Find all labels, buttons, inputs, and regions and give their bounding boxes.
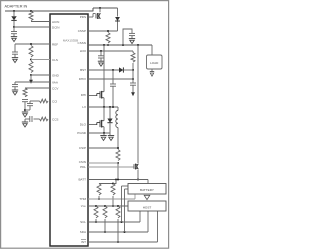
- wire INT into host box: [157, 211, 159, 242]
- wire D1 cathode to DCIN node: [13, 21, 15, 27]
- wire C-CSSN to ground: [131, 36, 133, 39]
- ground below CCV comp: [22, 111, 28, 113]
- svg-text:VAA: VAA: [52, 80, 59, 84]
- node DHIV supply: [132, 69, 134, 71]
- svg-text:CCI: CCI: [52, 99, 57, 103]
- wire SCL into host box: [139, 211, 141, 222]
- node LX / C-BST: [112, 106, 114, 108]
- connector arrow battery-host: [144, 195, 150, 199]
- wire DLO pin to Q2 gate: [88, 124, 97, 126]
- ground below D2: [108, 135, 114, 137]
- IC U1 charger box: [50, 14, 88, 246]
- transistor Q1 high-side NFET: [96, 94, 98, 97]
- wire CSSN rail to P2: [137, 45, 139, 163]
- wire jog to C-CSSN: [123, 29, 132, 45]
- node VDD / R-SDA: [104, 205, 106, 207]
- wire C1 to ground: [13, 34, 15, 37]
- wire BATT pin line: [88, 179, 148, 181]
- svg-text:DLO: DLO: [80, 123, 87, 127]
- wire VAA pin line: [15, 81, 50, 83]
- node SDA / battery branch: [123, 231, 125, 233]
- wire to ground arrow: [30, 75, 32, 77]
- node LX / Q1: [103, 106, 105, 108]
- resistor RS2 charge sense: [116, 150, 120, 161]
- resistor R-SCL pullup: [94, 206, 98, 218]
- svg-text:CSIP: CSIP: [79, 146, 86, 150]
- wire CSSN system rail: [88, 44, 152, 46]
- wire to C-CCI: [29, 101, 31, 104]
- node BATT / pullup pair: [115, 178, 117, 180]
- node VDD / R-SCL: [95, 205, 97, 207]
- node SDA pullup: [104, 231, 106, 233]
- wire D1 anode: [13, 11, 15, 16]
- wire THM pin line: [88, 198, 135, 200]
- wire rail step up: [92, 8, 94, 11]
- capacitor C-CSSN bypass: [129, 32, 135, 34]
- svg-text:DCIN: DCIN: [52, 25, 59, 29]
- inductor L1: [116, 111, 118, 128]
- block HOST box: [128, 201, 166, 211]
- wire comp to ground node: [24, 102, 26, 112]
- wire C-BST lead: [112, 70, 114, 84]
- wire BST pin line: [88, 69, 119, 71]
- capacitor C-DHIV bypass: [130, 82, 136, 84]
- wire adapter input rail: [5, 10, 93, 12]
- capacitor C-REF bypass: [12, 51, 18, 53]
- node RS2 / CSIN: [117, 162, 119, 164]
- resistor R-ACIN divider: [29, 11, 33, 21]
- resistor R-VDD feed: [111, 184, 115, 195]
- capacitor C1 DCIN bypass: [11, 31, 17, 33]
- wire LDO to R-DHIV: [132, 51, 134, 53]
- svg-text:MAX1535B: MAX1535B: [63, 39, 78, 43]
- resistor RS1 input sense: [106, 33, 110, 44]
- node adapter/R-ACIN junction: [30, 10, 32, 12]
- wire SDA into host box: [147, 211, 149, 232]
- wire R-DHIV to node: [132, 63, 134, 70]
- wire D2 cathode lead: [109, 107, 111, 119]
- wire INT pin line: [88, 241, 158, 243]
- wire SCL pin line: [88, 221, 140, 223]
- ground below C-VAA: [12, 89, 18, 91]
- svg-text:CCS: CCS: [52, 117, 58, 121]
- wire Q2 drain to LX: [103, 107, 105, 121]
- wire comp ground tie: [25, 109, 30, 111]
- node SCL pullup: [95, 221, 97, 223]
- diode D2 freewheel schottky: [107, 119, 112, 123]
- transistor P1 PDS p-channel FET: [95, 14, 97, 19]
- wire SCL into battery box: [122, 185, 129, 187]
- svg-text:PGND: PGND: [77, 131, 87, 135]
- capacitor C-LDO bypass: [98, 55, 104, 57]
- wire Q2 source to PGND: [103, 127, 105, 133]
- transistor P2 PDL p-channel FET: [133, 164, 135, 169]
- wire D-BST to DHIV node: [123, 69, 133, 71]
- svg-text:INT: INT: [81, 240, 86, 244]
- diode D1 input: [11, 16, 16, 20]
- wire rail to D3: [117, 8, 119, 17]
- wire VDD pin line: [88, 205, 128, 207]
- capacitor C-CCI comp: [27, 103, 33, 105]
- node rail / Q1 drain: [103, 44, 105, 46]
- resistor R-THM pullup: [97, 184, 101, 195]
- resistor R-CLS upper: [29, 46, 33, 57]
- svg-text:CSSP: CSSP: [78, 29, 86, 33]
- capacitor C-BST boost: [110, 83, 116, 85]
- node P2 / BATT: [137, 178, 139, 180]
- wire D2 to PGND: [109, 123, 111, 133]
- node REF divider top: [30, 43, 32, 45]
- ground below C1: [11, 36, 17, 38]
- wire PGND pin line: [88, 132, 110, 134]
- wire PDL pin line: [88, 166, 134, 168]
- wire LX pin line: [88, 106, 118, 108]
- wire CSSP pin line: [88, 30, 118, 32]
- wire pullup feed: [99, 180, 116, 184]
- resistor R-CCS comp: [40, 117, 49, 121]
- wire R-SCL to SCL: [95, 219, 97, 222]
- wire R-SDA to SDA: [104, 219, 106, 232]
- ground below C-LDO: [98, 60, 104, 62]
- svg-text:CSSN: CSSN: [78, 41, 86, 45]
- ground below C-REF: [12, 57, 18, 59]
- svg-text:LDO: LDO: [80, 49, 87, 53]
- node DHIV / bypass: [132, 78, 134, 80]
- node adapter/D1 junction: [13, 10, 15, 12]
- diode D3 to CSSP: [115, 17, 120, 21]
- block BATTERY box: [128, 184, 166, 195]
- resistor R-CLS lower: [29, 61, 33, 72]
- node INT pullup: [117, 241, 119, 243]
- node CSIP / RS2: [117, 147, 119, 149]
- wire rail to LOAD box: [151, 45, 153, 55]
- wire C-VAA to ground: [14, 87, 16, 90]
- node VDD feed: [112, 205, 114, 207]
- wire P2 to BATT line: [137, 170, 139, 180]
- node RS1 / CSSN rail: [107, 44, 109, 46]
- wire DHIV column: [132, 70, 134, 83]
- wire LDO pin line: [88, 50, 133, 52]
- node rail / C-jog: [122, 44, 124, 46]
- wire rail to P1: [99, 8, 101, 12]
- page border frame: [1, 1, 169, 249]
- ground below C-CSSN: [129, 38, 135, 40]
- node rail / P2 branch: [137, 44, 139, 46]
- block LOAD box: [147, 55, 163, 69]
- wire CSIN pin line: [88, 162, 118, 164]
- wire LOAD to ground: [151, 69, 153, 72]
- wire R-VDD to VDD line: [112, 196, 114, 206]
- wire to ACIN pin: [31, 21, 50, 23]
- capacitor C-CCV comp: [22, 99, 28, 101]
- node LDO cap: [100, 50, 102, 52]
- svg-text:ACIN: ACIN: [52, 20, 59, 24]
- wire SCL to battery: [121, 186, 123, 222]
- svg-text:ADAPTER IN: ADAPTER IN: [5, 5, 28, 9]
- wire C-BST to LX: [112, 86, 114, 107]
- svg-text:SDA: SDA: [80, 230, 87, 234]
- wire C-LDO to ground: [100, 58, 102, 61]
- svg-text:DHI: DHI: [81, 93, 86, 97]
- wire divider bottom to GND pin: [31, 74, 50, 76]
- wire C-CCS to ground: [25, 118, 30, 120]
- ground below CCS comp: [22, 121, 28, 123]
- node comp ground: [24, 109, 26, 111]
- svg-text:BATT: BATT: [78, 178, 86, 182]
- svg-text:HOST: HOST: [143, 206, 152, 210]
- wire VAA cap lead: [14, 82, 16, 85]
- svg-text:CLS: CLS: [52, 58, 58, 62]
- wire SDA to battery: [124, 189, 126, 232]
- wire DCIN node to C1: [13, 27, 15, 32]
- node CSSP / RS1: [107, 30, 109, 32]
- svg-text:LOAD: LOAD: [150, 61, 159, 65]
- wire REF cap lead: [14, 44, 16, 52]
- resistor R-CCV comp: [23, 88, 27, 97]
- node LX / D2: [109, 106, 111, 108]
- svg-text:PDS: PDS: [80, 15, 86, 19]
- wire CCI comp: [30, 100, 40, 102]
- svg-text:CSIN: CSIN: [79, 160, 86, 164]
- wire SDA pin line: [88, 231, 148, 233]
- node VDD / R-INT: [117, 205, 119, 207]
- wire DCIN node to DCIN pin: [14, 26, 50, 28]
- wire SDA into battery box: [125, 188, 129, 190]
- diode D-BST boost: [119, 67, 123, 72]
- wire R-THM to THM line: [98, 196, 100, 199]
- node BATT / RS2 column: [117, 178, 119, 180]
- wire BATT into battery box: [147, 180, 149, 184]
- svg-text:THM: THM: [79, 197, 86, 201]
- wire PGND stub: [103, 133, 105, 136]
- resistor R-DHIV feed: [131, 53, 135, 63]
- svg-text:DHIV: DHIV: [79, 77, 87, 81]
- ground below LOAD: [150, 71, 154, 73]
- wire THM into battery box: [134, 195, 136, 200]
- node rail / P1: [99, 7, 101, 9]
- resistor R-CCI comp: [40, 99, 49, 103]
- svg-text:GND: GND: [52, 73, 60, 77]
- node PGND / Q2: [103, 132, 105, 134]
- wire CSIN node to BATT line: [117, 163, 119, 180]
- transistor Q2 low-side NFET: [96, 123, 98, 126]
- ground below CLS divider: [30, 77, 32, 81]
- ground below Q2: [100, 135, 106, 137]
- wire CCV pin line: [25, 87, 50, 89]
- wire R-INT to INT: [117, 219, 119, 242]
- wire LDO cap lead: [100, 51, 102, 56]
- wire CSIP pin line: [88, 147, 118, 149]
- svg-text:SCL: SCL: [80, 220, 86, 224]
- capacitor C-CCS comp series: [29, 116, 31, 122]
- node SCL / battery branch: [120, 221, 122, 223]
- capacitor C-VAA bypass: [12, 84, 18, 86]
- node CLS tap: [30, 58, 32, 60]
- resistor R-INT pullup: [116, 206, 120, 218]
- wire C-DHIV to ground: [132, 85, 134, 89]
- wire PDS pin: [88, 16, 93, 18]
- svg-text:BST: BST: [80, 68, 86, 72]
- svg-text:CCV: CCV: [52, 86, 59, 90]
- wire C-CCI to ground node: [29, 106, 31, 110]
- node divider bottom: [30, 74, 32, 76]
- wire Q1 drain to rail: [103, 45, 105, 92]
- node BST / C-BST: [112, 69, 114, 71]
- wire rail to input diode: [93, 7, 118, 9]
- wire DHIV pin line: [88, 78, 133, 80]
- resistor R-SDA pullup: [103, 206, 107, 218]
- node pullup R2 top: [112, 182, 114, 184]
- wire CLS tap to CLS pin: [31, 59, 50, 61]
- node THM pullup: [98, 198, 100, 200]
- overline for INT pin: [81, 239, 86, 241]
- wire L1 to CSIP: [117, 128, 119, 149]
- wire D3 to CSSP line: [117, 22, 119, 32]
- wire CCS comp: [34, 118, 40, 120]
- svg-text:BATTERY: BATTERY: [140, 188, 154, 192]
- svg-text:PDL: PDL: [80, 165, 86, 169]
- svg-text:LX: LX: [82, 105, 86, 109]
- svg-text:REF: REF: [52, 42, 58, 46]
- ground below C-DHIV: [132, 89, 134, 93]
- wire C-REF to ground: [14, 54, 16, 57]
- wire Q1 source to LX: [103, 98, 105, 107]
- wire REF pin line: [15, 43, 50, 45]
- wire DHI pin to Q1 gate: [88, 95, 97, 97]
- node DCIN: [13, 26, 15, 28]
